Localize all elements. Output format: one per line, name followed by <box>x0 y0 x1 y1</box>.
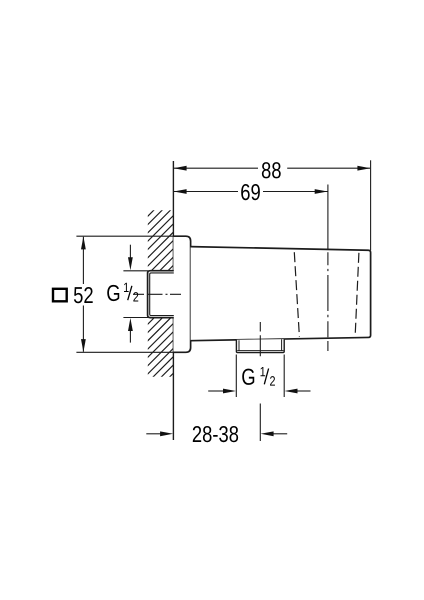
rear G1/2 dimension extension lines <box>123 270 148 272</box>
rear thread boss outer <box>148 271 174 318</box>
outlet boss inner <box>237 339 283 350</box>
bottom G1/2 arrows <box>208 390 223 392</box>
dimension 69 <box>174 191 328 193</box>
dimension 52 <box>82 237 84 352</box>
wall hatch <box>140 164 200 415</box>
cone hidden edge right <box>355 253 359 335</box>
88 extension line right <box>370 160 372 250</box>
wall line <box>172 161 174 440</box>
cone axis / 69 extension line <box>327 185 329 250</box>
dimension 88 <box>174 167 370 169</box>
flange plate <box>173 236 190 352</box>
rear G1/2 label <box>107 285 119 301</box>
outlet centerline <box>259 322 261 356</box>
rear axis centerline <box>133 293 181 295</box>
dimension 28-38 <box>146 433 160 435</box>
bottom G1/2 label <box>242 369 254 385</box>
bottom G1/2 dimension extension lines <box>235 355 237 398</box>
52 extension lines <box>76 235 173 237</box>
outlet boss outer <box>236 339 284 353</box>
cone hidden edge left <box>294 252 299 336</box>
body <box>191 247 371 341</box>
square symbol <box>53 289 67 302</box>
rear G1/2 arrows <box>129 245 131 258</box>
rear thread boss inner <box>150 273 174 316</box>
